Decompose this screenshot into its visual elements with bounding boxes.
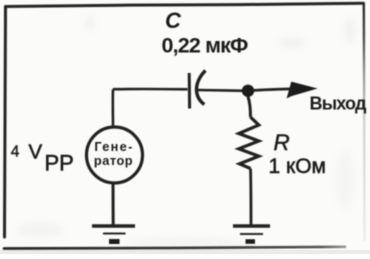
svg-text:Выход: Выход <box>310 94 367 114</box>
node junction dot <box>242 85 254 97</box>
wire capacitor to junction <box>198 89 247 92</box>
ground (resistor) bar 2 <box>240 233 263 235</box>
svg-text:V: V <box>29 141 43 164</box>
svg-text:0,22 мкФ: 0,22 мкФ <box>162 34 249 58</box>
svg-text:PP: PP <box>45 151 74 176</box>
resistor R zigzag <box>239 117 259 169</box>
ground (resistor) bar 3 <box>246 239 256 244</box>
svg-text:1 кОм: 1 кОм <box>269 155 326 178</box>
svg-text:ратор: ратор <box>94 153 133 168</box>
generator source circle <box>87 127 143 183</box>
capacitor C right plate <box>196 71 205 105</box>
ground (generator) bar 3 <box>109 239 120 244</box>
svg-text:C: C <box>165 8 182 33</box>
ground (generator) bar 1 <box>92 224 135 228</box>
wire top horizontal (generator to capacitor) <box>113 88 188 91</box>
output arrowhead <box>287 82 318 99</box>
svg-text:R: R <box>274 130 290 155</box>
wire resistor to ground <box>249 169 252 226</box>
wire junction down to resistor <box>248 97 250 118</box>
wire generator top vertical <box>112 89 115 127</box>
ground (resistor) bar 1 <box>233 224 270 227</box>
svg-text:Гене-: Гене- <box>94 139 133 154</box>
wire junction to output arrow <box>254 89 292 91</box>
ground (generator) bar 2 <box>103 233 126 235</box>
capacitor C left plate <box>188 73 191 109</box>
wire generator bottom vertical <box>112 184 115 226</box>
svg-text:4: 4 <box>11 144 20 161</box>
